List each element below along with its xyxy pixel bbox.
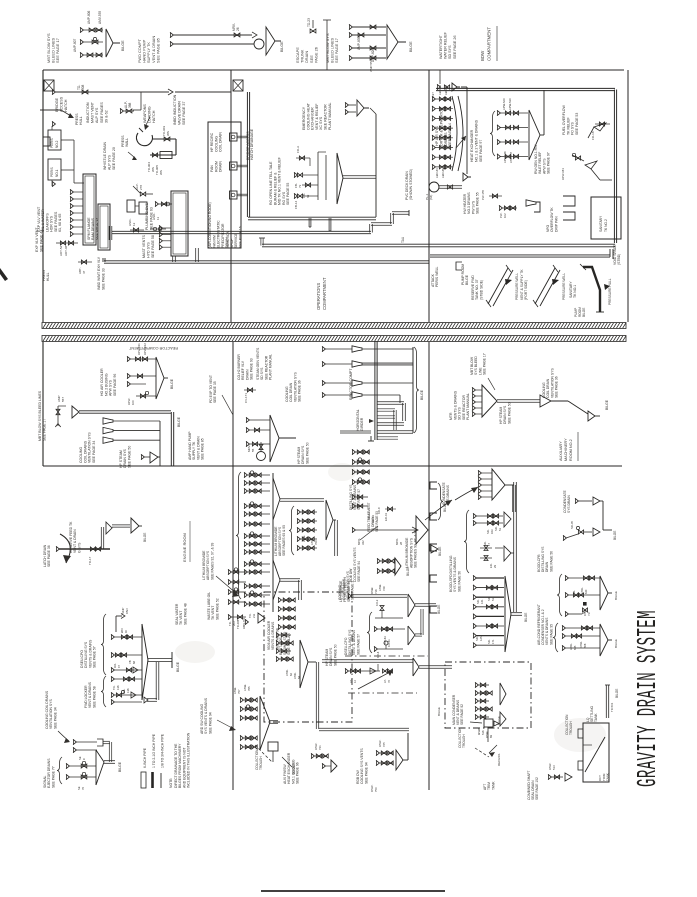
label: distilling sys 57 <box>349 484 361 510</box>
svg-text:HP AIR SYS: HP AIR SYS <box>435 125 439 146</box>
brace: rc bilge brace <box>414 347 424 433</box>
svg-text:808: 808 <box>583 643 587 648</box>
valve rows: heat exchanger <box>497 98 528 163</box>
svg-text:BILGE: BILGE <box>121 40 125 51</box>
valve rows: bood lower <box>473 575 504 648</box>
svg-text:SD-: SD- <box>487 596 491 601</box>
funnel: am2 second cone <box>540 395 588 414</box>
label: latch drain <box>43 544 51 567</box>
label: nfo overflow drip pan <box>546 207 558 232</box>
label: press wall <box>121 135 129 147</box>
wire: bleed line mid <box>349 32 386 50</box>
svg-text:SEE PAGE 17: SEE PAGE 17 <box>483 353 487 375</box>
component: collection trough box <box>268 742 278 762</box>
label: exp vlv vent oil & water leakoffs <box>37 206 62 232</box>
label: co-h2 burner <box>237 354 254 380</box>
valve FB-73 <box>294 172 318 188</box>
valve cluster: lithium bromide absorption <box>236 471 324 612</box>
svg-text:61, 68 & 65: 61, 68 & 65 <box>58 214 62 232</box>
label: fuel overflow tk relief <box>562 104 579 135</box>
svg-text:VALVE DRAIN: VALVE DRAIN <box>178 101 182 125</box>
svg-text:RSW-: RSW- <box>370 587 374 594</box>
valve: rdb valves <box>370 740 393 792</box>
boundary: amr2 dash line <box>345 655 428 657</box>
label: mast vents hyd sys <box>142 234 155 258</box>
svg-text:6-INCH PIPE: 6-INCH PIPE <box>143 747 147 768</box>
svg-text:TB-: TB- <box>122 689 126 693</box>
valve cluster: distilling sys vents <box>352 449 381 523</box>
svg-text:ROOM NO.2: ROOM NO.2 <box>569 439 573 461</box>
wire: leakoff comb teeth <box>70 189 83 236</box>
component: rc horns <box>352 346 362 398</box>
svg-text:342: 342 <box>361 540 365 545</box>
svg-text:WHISTLE DRAIN: WHISTLE DRAIN <box>103 141 107 170</box>
svg-text:47: 47 <box>82 270 86 274</box>
label: plumbing sys <box>145 202 154 230</box>
svg-text:G SYS: G SYS <box>77 542 81 553</box>
funnel: waste lube funnel <box>245 613 265 625</box>
svg-text:635: 635 <box>306 537 310 542</box>
svg-text:PRESSURE HULL: PRESSURE HULL <box>608 278 612 305</box>
svg-text:(SHOWN STOWED): (SHOWN STOWED) <box>409 169 413 200</box>
component: weapons hatch trunk <box>136 128 152 146</box>
wire: hull pipe top left <box>40 110 74 118</box>
svg-text:A?-: A?- <box>349 679 353 683</box>
funnel: reserve feed funnel2 <box>131 518 142 533</box>
svg-text:SD-: SD- <box>475 636 479 641</box>
svg-text:700: 700 <box>314 540 318 545</box>
valve AMP-557 <box>55 395 66 427</box>
wire: forward compartment top boundary <box>43 69 624 71</box>
component: small boxes pair <box>127 200 147 214</box>
funnel: am2 bilge funnel <box>588 411 600 421</box>
wire: ops main drain pipe 1 <box>248 217 376 220</box>
valve: escape trunk drain valve <box>310 20 316 33</box>
wire: legend arrow <box>58 731 70 743</box>
wire: bleed line lower <box>349 45 386 62</box>
wire: rc horn feeds <box>322 346 352 397</box>
svg-text:750: 750 <box>374 787 378 792</box>
svg-text:RECESS: RECESS <box>497 754 501 766</box>
label: oft trim tank <box>598 773 610 781</box>
label: water relief sd sys <box>439 31 457 59</box>
svg-text:WATER RELIEF: WATER RELIEF <box>444 31 448 59</box>
svg-text:AUXILIARY: AUXILIARY <box>559 441 563 461</box>
label: fan room drain <box>210 161 223 172</box>
svg-text:26: 26 <box>236 27 240 31</box>
label: reserve feed tk <box>69 521 81 553</box>
component: dryer manifold lens <box>452 96 463 171</box>
svg-text:BILGE: BILGE <box>177 416 181 427</box>
component: mrv-55 circle <box>247 442 266 461</box>
svg-text:(STBD SIDE): (STBD SIDE) <box>479 280 483 300</box>
label: hp steam drain am2 <box>499 402 511 424</box>
svg-text:MSW-: MSW- <box>477 727 481 735</box>
brace: heat exchanger rows <box>490 111 495 156</box>
wire: trunk pipe corner <box>150 139 176 155</box>
svg-text:725: 725 <box>382 742 386 747</box>
label: weapons loading hatch <box>143 104 156 123</box>
svg-text:PAN: PAN <box>125 608 129 614</box>
label: heat exchanger no1&2 <box>470 119 483 162</box>
label: emergency cooling heat exchanger <box>302 102 332 130</box>
label: pressure hull right <box>604 278 612 305</box>
label: collection trough B <box>565 714 573 735</box>
label: collection trough eng <box>255 749 263 770</box>
wire: ops/reactor bulkhead x=231 <box>230 70 232 322</box>
svg-text:TANK: TANK <box>606 773 610 781</box>
label: MBT blow sys bleed lines (top left) <box>46 33 60 63</box>
svg-text:BDW: BDW <box>480 50 485 61</box>
label: bridge access hatch <box>55 96 68 112</box>
label: BDW COMPARTMENT <box>480 26 497 61</box>
svg-text:HATCH: HATCH <box>152 110 156 123</box>
svg-text:SEE PAGE 37: SEE PAGE 37 <box>182 101 186 125</box>
svg-text:SEE PAGE 96: SEE PAGE 96 <box>113 374 117 396</box>
component: pvc deck drain circle <box>425 182 439 200</box>
svg-text:SEE PAGE 98: SEE PAGE 98 <box>275 628 279 650</box>
funnel: RO collector trapezoid <box>337 153 376 204</box>
svg-text:757: 757 <box>237 689 241 694</box>
svg-text:BILGE: BILGE <box>406 567 410 576</box>
svg-text:SEE PAGE 20: SEE PAGE 20 <box>112 147 116 170</box>
label: bilge chain1 <box>438 483 447 520</box>
svg-text:28: 28 <box>399 541 403 545</box>
svg-text:SEE PAGE 90: SEE PAGE 90 <box>347 581 351 602</box>
svg-text:BILGE: BILGE <box>465 274 469 285</box>
valve FB-14 <box>294 193 318 209</box>
scan smudge 1 <box>175 641 215 663</box>
svg-text:SEE PAGE 35: SEE PAGE 35 <box>213 381 217 403</box>
svg-text:RO-: RO- <box>113 663 117 668</box>
title: GRAVITY DRAIN SYSTEM <box>634 610 664 787</box>
funnel: fwd bilge funnel <box>106 29 125 57</box>
svg-text:557: 557 <box>61 397 65 402</box>
label: bilge chain2 <box>431 545 442 556</box>
svg-text:MACHINERY: MACHINERY <box>564 438 568 461</box>
brace: dseu brace <box>101 614 106 675</box>
svg-text:HATCH DRAINAGE: HATCH DRAINAGE <box>250 128 254 160</box>
svg-text:SEE PAGE 97: SEE PAGE 97 <box>547 152 551 174</box>
valve row: amr2 y671 <box>345 664 393 683</box>
label: reactor compartment <box>128 346 353 400</box>
valve HSO-12 <box>128 218 144 232</box>
label: pressure well 2 <box>562 273 566 300</box>
svg-text:INCLUDED IN THIS ILLUSTRATION: INCLUDED IN THIS ILLUSTRATION <box>187 732 191 788</box>
svg-text:SD-: SD- <box>476 599 480 604</box>
svg-text:SEE PAGE 53: SEE PAGE 53 <box>575 113 579 135</box>
wire: ops low pipe y262 <box>103 258 429 263</box>
svg-text:SEE PAGE 85: SEE PAGE 85 <box>155 38 160 63</box>
svg-text:51: 51 <box>491 598 495 601</box>
wire: trunk pipe upper <box>152 126 176 141</box>
wire: whistle arrow <box>128 152 137 160</box>
svg-text:TD-288: TD-288 <box>236 619 240 629</box>
wire: amr2 diagonal pointer <box>358 670 393 689</box>
label TD-904 905 <box>147 162 163 175</box>
svg-text:TD-: TD- <box>112 685 116 690</box>
label: hg air cooler <box>100 368 117 396</box>
component: deck drain standpipe circle <box>254 39 264 49</box>
wire: rc bottom pipe <box>340 431 374 441</box>
svg-text:TAU: TAU <box>401 236 405 243</box>
label: pump room bilge lower <box>574 307 586 317</box>
svg-text:BILGE: BILGE <box>437 707 441 716</box>
svg-text:COMPARTMENT: COMPARTMENT <box>487 27 492 61</box>
svg-text:GIRDER: GIRDER <box>360 417 364 431</box>
svg-text:VB: VB <box>128 660 132 664</box>
svg-text:BILGE: BILGE <box>615 689 619 698</box>
label: lithium bromide 1 <box>405 530 418 568</box>
wire: riser to top boundary <box>323 20 331 70</box>
svg-text:SEE PAGE 55: SEE PAGE 55 <box>286 183 290 205</box>
svg-text:INBD INDUCTION: INBD INDUCTION <box>173 94 177 125</box>
label: pvc deck drain <box>405 169 413 200</box>
component: lq settling tank <box>578 723 609 782</box>
svg-text:PRESSURE WELL: PRESSURE WELL <box>562 273 566 300</box>
valve cluster: rdb mid <box>370 558 410 594</box>
svg-text:BILGE: BILGE <box>118 761 122 772</box>
svg-text:TK NO.2: TK NO.2 <box>604 219 608 232</box>
svg-text:SEE PAGE 36: SEE PAGE 36 <box>555 376 559 398</box>
component: periscope no.2 box <box>48 121 61 150</box>
label: subsafe ejector drains <box>43 758 55 788</box>
valve row PW <box>499 205 517 218</box>
svg-text:1/8 TO 3/4-INCH PIPE: 1/8 TO 3/4-INCH PIPE <box>161 733 165 768</box>
svg-text:SEE PAGE 48: SEE PAGE 48 <box>183 603 187 625</box>
svg-text:SANITARY: SANITARY <box>599 215 603 232</box>
svg-text:BILGES: BILGES <box>292 762 296 774</box>
svg-text:SEE PAGE 94: SEE PAGE 94 <box>357 561 361 582</box>
label: bilge mid <box>177 416 181 427</box>
label: combined shaft seal <box>527 771 539 801</box>
funnel: mtr collector <box>472 385 540 417</box>
brace: lithium group 2 <box>289 506 294 555</box>
brace: subsafe brace <box>57 757 62 784</box>
funnel: MBT bleed collector <box>387 25 413 59</box>
hatched hull band strip 2 <box>42 336 626 342</box>
label: spm flange ram drains <box>87 217 99 240</box>
svg-text:PW-155: PW-155 <box>481 190 485 200</box>
svg-text:163: 163 <box>490 529 494 534</box>
wire: bleed line upper <box>349 24 386 29</box>
label: bilge am2 <box>605 399 609 410</box>
svg-text:SEE PAGE 34: SEE PAGE 34 <box>53 707 57 729</box>
wire: bridge hatch drain main <box>52 89 173 95</box>
svg-text:100: 100 <box>131 400 135 405</box>
wire: port hull line (ops compt) <box>42 70 44 322</box>
label: hp steam drain rc <box>297 442 309 464</box>
boundary: main condenser dash box <box>445 662 531 728</box>
svg-text:ASW-: ASW- <box>378 584 382 591</box>
svg-text:OPERATIONS: OPERATIONS <box>316 283 321 310</box>
svg-text:TROUGH: TROUGH <box>259 755 263 770</box>
valve rows: dseu-cpo <box>111 628 142 673</box>
label: 9506 air cooler <box>267 620 279 650</box>
wire: hand pump suction line 2 <box>170 41 254 46</box>
wire: bdw left drain riser <box>461 87 471 181</box>
valve FO-A <box>296 146 310 166</box>
component: pressure well chevron 1 <box>486 265 513 307</box>
wire: mpd lines <box>352 526 418 545</box>
component: vent horns left <box>103 418 160 466</box>
svg-text:141: 141 <box>480 599 484 604</box>
svg-text:AMP-807: AMP-807 <box>73 38 77 52</box>
svg-text:PERIS: PERIS <box>50 138 54 148</box>
label TO-17 <box>88 556 92 565</box>
svg-text:70: 70 <box>81 787 85 790</box>
svg-text:765: 765 <box>247 686 251 691</box>
svg-text:29: 29 <box>493 565 497 568</box>
wire: ops pipe hooks <box>309 218 331 231</box>
svg-text:SEE PAGE 33: SEE PAGE 33 <box>102 268 106 290</box>
svg-text:APW-520: APW-520 <box>502 98 506 110</box>
label: escape trunk drain <box>295 47 318 63</box>
brace: fwd locker brace <box>101 676 106 707</box>
svg-text:(STBD): (STBD) <box>617 254 621 265</box>
label: bilge locker <box>176 661 180 672</box>
svg-text:12: 12 <box>132 222 136 226</box>
svg-text:SEE PAGE 50: SEE PAGE 50 <box>333 644 337 666</box>
svg-text:102: 102 <box>503 213 507 218</box>
svg-text:SEE PAGE 50: SEE PAGE 50 <box>507 402 511 424</box>
wire: port hull line below band <box>42 342 44 466</box>
valve FO-18 <box>591 122 610 140</box>
funnel: rdb funnel <box>396 733 408 770</box>
svg-text:SEE PAGE 56: SEE PAGE 56 <box>549 551 553 572</box>
component: bulkhead hatch X box <box>233 80 243 91</box>
wire: condensate right line1 <box>575 497 603 505</box>
wire: condensate arrow <box>455 487 478 500</box>
funnel: condensate right funnel2 <box>593 501 617 540</box>
label: MBT blow sys (mid top) <box>325 33 339 63</box>
wire: precip drain header <box>247 92 249 217</box>
brace: bood brace <box>464 510 469 573</box>
label: cooling coil drain vent rc <box>285 372 302 402</box>
wire: pipe drop left2 <box>109 226 112 240</box>
svg-text:SD SYS: SD SYS <box>448 45 452 59</box>
wire: machinery bulkhead x=429 lower <box>428 342 430 790</box>
component: trough box A <box>470 716 501 742</box>
funnel: amr big funnel <box>416 516 428 544</box>
component: rc pipe maze <box>377 402 413 440</box>
svg-text:TD-501: TD-501 <box>610 702 614 712</box>
scan artifact <box>0 268 8 281</box>
label: condensate sys drain right <box>563 490 571 513</box>
svg-text:278: 278 <box>139 185 143 190</box>
label: lithium bromide left <box>202 543 239 597</box>
label: steam gen vents <box>256 347 273 380</box>
svg-text:SEE PAGE 95: SEE PAGE 95 <box>549 624 553 645</box>
svg-text:PERIS WELL: PERIS WELL <box>435 267 439 287</box>
svg-text:WS: WS <box>166 131 170 136</box>
valve FB-63 <box>302 183 318 198</box>
legend: pipe labels <box>143 733 165 768</box>
svg-text:SEE PAGE 58: SEE PAGE 58 <box>151 235 155 258</box>
label: rw gen no1 <box>534 144 551 174</box>
wire: mast box drop <box>173 248 199 262</box>
valve rows: bood upper <box>473 512 511 546</box>
svg-text:AMP-556: AMP-556 <box>369 59 373 72</box>
svg-text:BILGE: BILGE <box>143 533 147 542</box>
svg-text:211: 211 <box>252 613 256 618</box>
svg-text:731: 731 <box>318 745 322 750</box>
svg-text:NOTE:: NOTE: <box>169 778 173 788</box>
svg-text:MBT BLOW SYS BLEED LINES: MBT BLOW SYS BLEED LINES <box>38 390 42 441</box>
svg-text:AMV-86: AMV-86 <box>441 168 445 178</box>
label: induction mast vent <box>86 101 108 123</box>
funnel: condensate collector <box>478 469 515 512</box>
valve cluster: ard sw <box>233 684 278 750</box>
svg-text:WEAPONS: WEAPONS <box>143 104 147 123</box>
funnel: mbt funnel mid <box>72 406 79 418</box>
valve rows: lithium group 2 <box>297 509 318 550</box>
component: sanitary tank no2 <box>591 197 621 239</box>
brace: amr2 brace <box>367 612 372 653</box>
svg-text:ASW-: ASW- <box>580 587 584 594</box>
svg-text:51: 51 <box>498 528 502 531</box>
label: port side shown <box>279 631 291 655</box>
label: amp hand pump <box>188 431 205 460</box>
svg-text:388: 388 <box>128 102 132 108</box>
label: reserve fwd tank <box>471 275 483 300</box>
svg-text:SEE PAGE 85: SEE PAGE 85 <box>201 438 205 460</box>
wire: deck drain header <box>439 185 462 189</box>
svg-text:FO-A: FO-A <box>296 146 300 153</box>
label: operations compartment <box>316 277 327 310</box>
svg-text:APW-681: APW-681 <box>561 168 565 180</box>
valve group: fwd MBT bleed valves <box>73 10 103 57</box>
label: lq settling tank <box>586 705 598 722</box>
svg-text:HEAT EXCHANGER: HEAT EXCHANGER <box>470 129 474 162</box>
svg-text:SEE PAGE 56: SEE PAGE 56 <box>457 571 461 592</box>
component: mast vent box <box>171 191 188 256</box>
wire: rc collector <box>412 347 414 433</box>
label: junction shop service <box>226 226 242 248</box>
wire: machinery bulkhead x=429 upper <box>428 70 430 322</box>
valve: aux fwsw valves <box>311 743 328 759</box>
svg-text:11: 11 <box>156 217 160 220</box>
label: hp steam drain eng <box>325 644 337 666</box>
svg-text:CV-171: CV-171 <box>244 393 248 403</box>
valve ALP-278 <box>133 183 153 196</box>
valve APW-681 <box>561 153 584 180</box>
svg-text:BILGE: BILGE <box>443 503 447 512</box>
wire: pressure hull long line <box>430 249 613 259</box>
label: rdb dw cooling 94 <box>349 547 361 582</box>
svg-text:WATERTIGHT: WATERTIGHT <box>439 34 443 59</box>
wire: recess dashes <box>475 745 501 766</box>
svg-text:516: 516 <box>481 730 485 735</box>
funnel: lithium group2 collector <box>326 500 337 556</box>
funnel: big steam funnel <box>270 415 296 462</box>
funnel: hw heater horn <box>526 200 540 212</box>
svg-text:PLANT MANUAL: PLANT MANUAL <box>466 393 470 420</box>
wire: trough dashes <box>255 745 272 762</box>
label: void space <box>613 244 621 265</box>
wire: precip stubs <box>237 136 248 196</box>
valve cluster: main condenser <box>437 682 506 738</box>
label: engine room <box>182 521 190 562</box>
label: waste lube labels <box>248 613 256 618</box>
svg-text:SEE PAGE 26: SEE PAGE 26 <box>453 35 457 59</box>
wire: amr2 top drain line <box>348 593 407 598</box>
footer rule <box>261 890 445 892</box>
svg-text:GRAVITY DRAIN SYSTEM: GRAVITY DRAIN SYSTEM <box>634 610 664 787</box>
label: air conditioning room texts <box>208 202 229 248</box>
funnel: shaft seal funnel <box>565 773 572 781</box>
label: waste lube oil <box>207 592 219 620</box>
